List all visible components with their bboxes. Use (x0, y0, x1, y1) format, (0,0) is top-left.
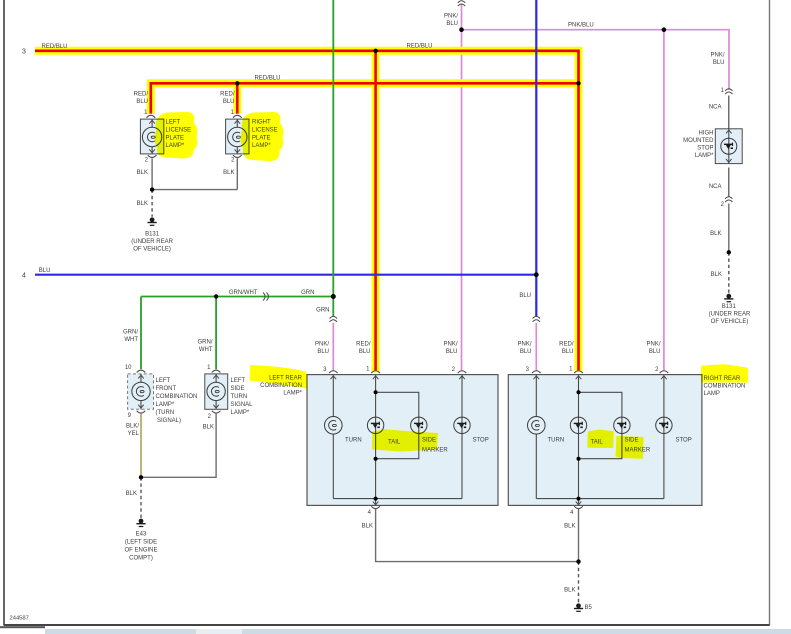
wire BLK dashed to ground B5 (578, 562, 580, 603)
svg-text:B5: B5 (585, 605, 593, 611)
svg-text:SIGNAL): SIGNAL) (157, 418, 181, 424)
svg-text:PLATE: PLATE (166, 135, 185, 141)
svg-text:RED/: RED/ (134, 92, 149, 98)
svg-text:RIGHT: RIGHT (252, 120, 271, 126)
junction node right rear loop bottom (577, 457, 581, 461)
wire NCA below high mounted stop lamp (728, 168, 730, 197)
svg-text:PNK/: PNK/ (443, 342, 457, 348)
svg-text:TURN: TURN (548, 438, 565, 444)
svg-text:B131: B131 (722, 304, 737, 310)
wire BLK from left side turn signal lamp (141, 414, 216, 478)
wire BLK below high mounted stop lamp connector (728, 204, 730, 253)
bulb TURN right rear (528, 417, 546, 435)
svg-text:MARKER: MARKER (422, 448, 448, 454)
svg-text:LAMP*: LAMP* (156, 402, 175, 408)
svg-text:B131: B131 (145, 232, 160, 238)
svg-text:COMBINATION: COMBINATION (156, 394, 198, 400)
svg-text:GRN: GRN (316, 308, 329, 314)
page border left (3, 0, 5, 626)
svg-text:BLU: BLU (317, 349, 329, 355)
ground B131 under rear of vehicle (148, 217, 157, 226)
bulb SIDE MARKER right rear (614, 417, 630, 433)
svg-text:LEFT: LEFT (231, 378, 246, 384)
inline connector GRN to PNK/BLU (330, 316, 337, 321)
svg-text:COMPT): COMPT) (129, 556, 153, 562)
svg-text:GRN/: GRN/ (123, 330, 138, 336)
pin 2 connector left rear lamp (458, 371, 467, 373)
pin 1 connector right rear lamp (574, 371, 583, 373)
svg-text:BLK: BLK (711, 272, 722, 278)
svg-text:LAMP*: LAMP* (231, 410, 250, 416)
pin 1 connector high mounted stop lamp (725, 89, 732, 94)
inline connector top of PNK/BLU vertical (458, 1, 465, 6)
svg-text:LEFT REAR: LEFT REAR (269, 376, 303, 382)
lamp U1 left license plate lamp box (140, 119, 163, 154)
svg-text:MARKER: MARKER (625, 448, 651, 454)
wire PNK/BLU into left rear lamp pin 3 (332, 323, 334, 371)
wire BLK from left rear lamp pin 4 (376, 509, 579, 562)
svg-text:TAIL: TAIL (591, 440, 604, 446)
left side turn signal lamp internals (215, 374, 217, 409)
svg-text:LICENSE: LICENSE (252, 128, 278, 134)
wire BLK/YEL from left front combination lamp (140, 414, 142, 478)
left rear combination lamp box body (307, 375, 498, 506)
svg-text:RED/: RED/ (220, 92, 235, 98)
svg-text:BLK: BLK (203, 425, 214, 431)
svg-text:BLK: BLK (362, 524, 373, 530)
inline connector BLU to PNK/BLU (533, 316, 540, 321)
svg-text:BLK/: BLK/ (126, 424, 139, 430)
wire RED/BLU 3 highlight band (35, 51, 579, 372)
lamp U2 right license plate lamp box (226, 119, 249, 154)
wire RED/BLU vertical to left rear lamp pin 1 (374, 51, 377, 370)
junction node PNK/BLU top left (459, 27, 464, 32)
svg-text:PNK/: PNK/ (315, 342, 329, 348)
bulb STOP right rear (656, 417, 672, 433)
svg-text:SIDE: SIDE (422, 438, 436, 444)
svg-text:WHT: WHT (199, 347, 213, 353)
wire BLU 4 horizontal (35, 274, 536, 276)
svg-text:YEL: YEL (128, 431, 140, 437)
svg-text:PNK/BLU: PNK/BLU (568, 23, 594, 29)
svg-text:STOP: STOP (676, 438, 692, 444)
pin 3 connector right rear lamp (532, 371, 541, 373)
pin 4 connector right rear lamp (574, 506, 583, 508)
svg-text:TURN: TURN (345, 438, 362, 444)
svg-text:OF ENGINE: OF ENGINE (124, 548, 157, 554)
bulb TAIL left rear (367, 417, 383, 433)
svg-text:3: 3 (22, 49, 26, 56)
wire RED/BLU 3 horizontal (35, 51, 579, 370)
svg-text:GRN/WHT: GRN/WHT (229, 290, 258, 296)
svg-text:(TURN: (TURN (156, 410, 175, 416)
svg-text:OF VEHICLE): OF VEHICLE) (133, 247, 171, 253)
junction node wire 2 meets red vertical (576, 81, 580, 85)
svg-text:SIDE: SIDE (625, 438, 639, 444)
ground E43 left side of engine compt (136, 519, 145, 528)
junction node left rear bus (374, 497, 378, 501)
junction node BLK bottom join (576, 559, 580, 563)
svg-text:NCA: NCA (709, 105, 722, 111)
svg-text:E43: E43 (136, 532, 147, 538)
svg-text:COMBINATION: COMBINATION (260, 383, 302, 389)
svg-text:10: 10 (125, 365, 132, 371)
junction node BLU turns down (534, 272, 539, 277)
wire GRN/WHT horizontal to front lamps (141, 296, 333, 298)
svg-text:BLU: BLU (359, 349, 371, 355)
page border bottom (4, 624, 770, 626)
wire BLK right license lamp to junction (152, 158, 237, 189)
svg-text:PNK/: PNK/ (517, 342, 531, 348)
svg-text:BLK: BLK (564, 524, 575, 530)
ground B131 under rear of vehicle right (724, 294, 733, 303)
wire GRN/WHT drop to left front combination lamp (140, 297, 142, 370)
right rear combination lamp box body (508, 375, 702, 506)
wire NCA above high mounted stop lamp (728, 96, 730, 129)
svg-text:SIDE: SIDE (231, 386, 245, 392)
svg-text:BLU: BLU (223, 99, 235, 105)
pin 4 connector left rear lamp (371, 506, 380, 508)
wire GRN/WHT drop to left side turn signal lamp (215, 297, 217, 370)
pin 1 connector left license lamp (147, 115, 156, 117)
svg-text:RED/BLU: RED/BLU (42, 44, 68, 50)
svg-text:TAIL: TAIL (388, 440, 401, 446)
wire PNK/BLU drop to right rear lamp pin 2 (663, 30, 665, 371)
svg-text:BLU: BLU (649, 349, 661, 355)
highlight blob SIDE MARKER right box (616, 436, 644, 459)
junction node left rear loop top (374, 390, 378, 394)
wire GRN vertical from top (332, 0, 334, 297)
svg-text:BLK: BLK (564, 588, 575, 594)
svg-text:244587: 244587 (10, 616, 29, 622)
bottom toolbar strip (0, 629, 791, 634)
svg-text:PLATE: PLATE (252, 135, 271, 141)
wire BLK dashed to ground B131 right (728, 252, 730, 293)
junction node right rear bus (577, 497, 581, 501)
junction node on wire 3 at red branch (373, 49, 377, 53)
lamp U6 high mounted stop lamp box (715, 129, 742, 164)
svg-text:RIGHT REAR: RIGHT REAR (704, 376, 742, 382)
wire RED/BLU 2 band license lamps (151, 83, 579, 114)
svg-text:LICENSE: LICENSE (166, 128, 192, 134)
left license plate lamp internals (151, 119, 153, 154)
pin 2 connector right license lamp (233, 155, 242, 157)
wire PNK/BLU vertical left from top (461, 5, 463, 371)
svg-text:RED/: RED/ (356, 342, 371, 348)
svg-text:SIGNAL: SIGNAL (231, 402, 254, 408)
highlight blob right license plate lamp (241, 112, 284, 161)
svg-text:BLU: BLU (39, 268, 51, 274)
pin 2 connector left side turn signal lamp (212, 411, 221, 413)
svg-text:BLU: BLU (136, 99, 148, 105)
highlight blob left license plate lamp (155, 112, 198, 159)
pin 3 connector left rear lamp (329, 371, 338, 373)
svg-text:LEFT: LEFT (156, 378, 171, 384)
pin 2 connector right rear lamp (660, 371, 669, 373)
junction node high mounted BLK (727, 250, 731, 254)
svg-text:BLK: BLK (126, 491, 137, 497)
junction node wire 2 right license lamp (235, 81, 239, 85)
svg-text:RED/BLU: RED/BLU (407, 44, 433, 50)
wire BLK left license lamp to junction (151, 158, 153, 189)
junction node GRN vertical (331, 294, 336, 299)
junction node left rear loop bottom (374, 457, 378, 461)
page border right (769, 0, 771, 626)
svg-text:LAMP: LAMP (704, 391, 720, 397)
wire BLK from right rear lamp pin 4 (578, 509, 580, 562)
pin 9 connector left front combination lamp (137, 411, 146, 413)
right rear lamp internal wiring (536, 375, 664, 505)
svg-text:OF VEHICLE): OF VEHICLE) (711, 319, 749, 325)
wire GRN stub below node to connector (332, 297, 334, 317)
wire PNK/BLU horizontal top (462, 30, 730, 90)
svg-text:BLU: BLU (713, 60, 725, 66)
junction node GRN/WHT at side lamp (214, 294, 218, 298)
svg-text:4: 4 (22, 272, 26, 279)
junction node front lamps BLK (139, 475, 143, 479)
highlight blob TAIL / SIDE MARKER left box (372, 429, 438, 451)
svg-text:TURN: TURN (231, 394, 248, 400)
svg-text:(UNDER REAR: (UNDER REAR (709, 312, 751, 318)
high mounted stop lamp internals (728, 129, 730, 164)
bulb TAIL right rear (570, 417, 586, 433)
right license plate lamp internals (236, 119, 238, 154)
highlight blob LEFT REAR COMBINATION label (250, 365, 307, 389)
svg-text:MOUNTED: MOUNTED (683, 138, 714, 144)
left rear lamp internal wiring (333, 375, 462, 505)
svg-text:COMBINATION: COMBINATION (704, 384, 746, 390)
pin 2 connector high mounted stop lamp (725, 197, 732, 202)
svg-text:GRN/: GRN/ (198, 340, 213, 346)
svg-text:BLU: BLU (446, 349, 458, 355)
svg-text:BLU: BLU (520, 349, 532, 355)
svg-text:RED/: RED/ (559, 342, 574, 348)
svg-text:(UNDER REAR: (UNDER REAR (131, 239, 173, 245)
svg-text:LAMP*: LAMP* (166, 143, 185, 149)
svg-text:LAMP*: LAMP* (252, 143, 271, 149)
wire BLK dashed to ground B131 left (151, 190, 153, 217)
svg-text:BLK: BLK (223, 170, 234, 176)
svg-text:BLK: BLK (137, 170, 148, 176)
svg-text:BLU: BLU (562, 349, 574, 355)
svg-text:PNK/: PNK/ (710, 53, 724, 59)
svg-text:GRN: GRN (301, 290, 314, 296)
junction node right rear loop top (577, 390, 581, 394)
bulb STOP left rear (454, 417, 470, 433)
junction node license lamps BLK (150, 187, 154, 191)
svg-text:BLK: BLK (710, 231, 721, 237)
svg-text:STOP: STOP (697, 146, 713, 152)
svg-text:STOP: STOP (473, 438, 489, 444)
svg-text:BLK: BLK (137, 201, 148, 207)
svg-text:LAMP*: LAMP* (283, 391, 302, 397)
bulb SIDE MARKER left rear (411, 417, 427, 433)
svg-text:WHT: WHT (124, 337, 138, 343)
wire BLU vertical from top (535, 0, 537, 317)
svg-text:NCA: NCA (709, 184, 722, 190)
svg-text:BLU: BLU (446, 21, 458, 27)
wire PNK/BLU into right rear lamp pin 3 (535, 323, 537, 371)
pin 1 connector right license lamp (233, 115, 242, 117)
highlight blob TAIL right box (587, 430, 614, 449)
pin 1 connector left side turn signal lamp (212, 370, 221, 372)
svg-text:LAMP*: LAMP* (695, 153, 714, 159)
junction node PNK/BLU top right (662, 27, 667, 32)
left front combination lamp box (dashed) (128, 374, 154, 409)
wire BLK dashed to ground E43 (140, 477, 142, 518)
lamp U5 left side turn signal lamp box (205, 374, 228, 409)
inline connector GRN/WHT to GRN (263, 293, 269, 301)
svg-text:LEFT: LEFT (166, 120, 181, 126)
pin 2 connector left license lamp (148, 155, 157, 157)
wire RED/BLU 2 to license lamps (151, 83, 579, 113)
pin 1 connector left rear lamp (371, 371, 380, 373)
highlight blob RIGHT REAR COMBINATION label (701, 364, 748, 382)
pin 10 connector left front combination lamp (137, 370, 146, 372)
svg-text:HIGH: HIGH (699, 131, 714, 137)
svg-text:RED/BLU: RED/BLU (255, 76, 281, 82)
bulb TURN left rear (325, 417, 343, 435)
wire RED/BLU branch band vertical to left rear lamp (372, 51, 380, 372)
svg-text:PNK/: PNK/ (444, 14, 458, 20)
svg-text:FRONT: FRONT (156, 386, 177, 392)
ground B5 (574, 603, 583, 612)
svg-text:(LEFT SIDE: (LEFT SIDE (125, 540, 157, 546)
svg-text:BLU: BLU (519, 293, 531, 299)
svg-text:PNK/: PNK/ (646, 342, 660, 348)
